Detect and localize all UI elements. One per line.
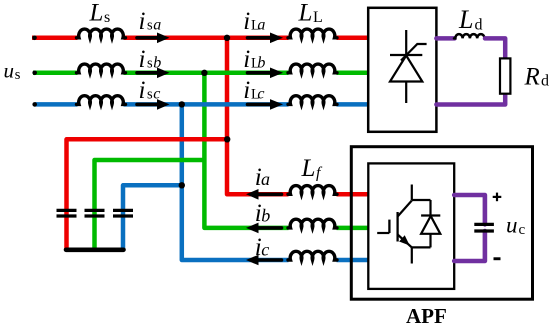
capacitor Cc plates <box>113 210 133 216</box>
arrow iLb <box>248 68 284 79</box>
IGBT emitter stub <box>411 247 413 263</box>
svg-text:L: L <box>298 0 313 27</box>
arrow ic <box>246 255 282 266</box>
node junction phase-b top <box>201 70 207 76</box>
thyristor gate <box>401 44 427 61</box>
inductor Ls phase c <box>77 96 126 105</box>
label isc <box>139 77 161 104</box>
IGBT collector diagonal <box>398 201 412 217</box>
wire phase-a line LL to rectifier <box>337 36 369 41</box>
IGBT bottom horizontal <box>412 246 431 248</box>
thyristor triangle <box>390 56 422 82</box>
wire phase-b drop (green vertical from node B to ib corner) <box>204 73 288 228</box>
svg-text:s: s <box>147 87 153 103</box>
diode top lead <box>429 200 431 216</box>
arrow ia <box>246 189 282 200</box>
inductor LL phase a <box>288 29 337 38</box>
inductor LL phase b <box>288 64 337 73</box>
arrow ib <box>246 223 282 234</box>
label LL <box>298 0 323 27</box>
label iLc <box>243 77 264 104</box>
wire phase-b source segment <box>33 71 78 76</box>
wire dc-link purple bottom <box>454 231 485 261</box>
label ia <box>255 164 270 191</box>
svg-text:L: L <box>301 155 316 182</box>
wire phase-c capacitor branch (blue) <box>123 185 182 250</box>
svg-text:L: L <box>89 0 104 27</box>
IGBT body bar <box>396 212 398 242</box>
svg-text:c: c <box>257 86 264 103</box>
wire phase-a source segment <box>32 36 78 41</box>
capacitor Ca plates <box>57 210 77 216</box>
svg-text:L: L <box>458 5 473 34</box>
IGBT gate bar <box>388 220 390 233</box>
inductor Ls phase b <box>77 64 126 73</box>
arrow iLa <box>248 33 284 44</box>
svg-text:s: s <box>104 9 110 26</box>
label ib <box>255 200 270 227</box>
resistor Rd <box>500 58 510 93</box>
capacitor uc plates <box>474 224 494 231</box>
APF outer box <box>351 147 532 300</box>
arrow isb <box>137 68 170 79</box>
label iLb <box>243 46 265 73</box>
thyristor anode lead <box>405 30 407 55</box>
IGBT collector stub <box>411 185 413 201</box>
svg-text:b: b <box>257 54 265 71</box>
label iLa <box>243 8 265 35</box>
thyristor cathode lead <box>405 82 407 104</box>
wire phase-b line Ls to LL <box>124 71 289 76</box>
diode bottom lead <box>429 234 431 248</box>
wire phase-b capacitor branch (green) <box>95 160 205 250</box>
svg-text:c: c <box>519 222 526 238</box>
svg-text:s: s <box>147 18 153 34</box>
inductor Lf phase b <box>288 219 337 228</box>
IGBT emitter arrowhead <box>399 235 410 245</box>
svg-text:a: a <box>257 17 265 34</box>
wire phase-c line Ls to LL <box>124 102 289 107</box>
inductor Ld <box>454 34 486 38</box>
arrow isc <box>137 99 170 110</box>
node junction blue capacitor branch <box>179 182 185 188</box>
label plus <box>493 193 502 202</box>
svg-text:i: i <box>139 8 146 35</box>
svg-text:i: i <box>139 46 146 73</box>
wire ib segment Lf to inner box (green) <box>337 226 369 231</box>
svg-text:f: f <box>316 165 323 182</box>
IGBT gate lead <box>377 232 389 234</box>
wire phase-b line LL to rectifier <box>337 71 369 76</box>
wire dc top purple (rectifier to Ld) <box>436 36 454 41</box>
wire phase-a drop (red vertical from node A to ia corner) <box>227 38 289 195</box>
inductor Ls phase a <box>77 29 126 38</box>
label isa <box>139 8 162 35</box>
diode triangle <box>421 216 440 234</box>
svg-text:i: i <box>243 8 250 35</box>
label Ls <box>89 0 111 27</box>
svg-text:APF: APF <box>406 304 447 326</box>
wire phase-c line LL to rectifier <box>337 102 369 107</box>
diode bar <box>421 214 440 216</box>
wire phase-a capacitor branch (red) <box>67 139 228 250</box>
wire ia segment Lf to inner box (red) <box>337 192 369 197</box>
IGBT top horizontal <box>412 199 431 201</box>
svg-text:L: L <box>313 9 323 26</box>
wire dc loop purple (Ld to Rd to rectifier) <box>436 38 505 104</box>
svg-text:u: u <box>4 59 15 83</box>
arrow isa <box>137 33 170 44</box>
svg-text:b: b <box>153 54 161 71</box>
inductor LL phase c <box>288 96 337 105</box>
wire phase-c drop (blue vertical from node C to ic corner) <box>182 104 289 260</box>
capacitor common bar <box>66 248 124 253</box>
svg-text:s: s <box>15 67 21 83</box>
label uc <box>506 213 526 239</box>
label Ld <box>458 5 483 34</box>
wire ic segment Lf to inner box (blue) <box>337 258 369 263</box>
svg-text:R: R <box>524 63 540 90</box>
arrow iLc <box>248 99 284 110</box>
svg-text:c: c <box>153 86 160 103</box>
label us <box>4 59 21 84</box>
label Lf <box>301 155 324 182</box>
node junction red capacitor branch <box>224 136 230 142</box>
rectifier box <box>368 8 436 132</box>
svg-text:u: u <box>506 213 518 238</box>
svg-text:d: d <box>541 73 549 90</box>
capacitor Cb plates <box>85 210 105 216</box>
label minus <box>494 257 501 260</box>
APF inner box <box>368 163 454 289</box>
node junction phase-a top <box>224 35 230 41</box>
svg-text:d: d <box>475 16 483 33</box>
svg-text:a: a <box>153 17 161 34</box>
node source b <box>32 71 37 76</box>
svg-text:a: a <box>261 169 270 189</box>
svg-text:s: s <box>147 55 153 71</box>
wire phase-a line Ls to LL <box>124 36 289 41</box>
svg-text:i: i <box>243 46 250 73</box>
label isb <box>139 46 162 73</box>
svg-text:b: b <box>261 205 270 225</box>
wire phase-c source segment <box>35 102 78 107</box>
thyristor bar <box>390 54 422 56</box>
node junction phase-c top <box>179 101 185 107</box>
wire dc-link purple top (inner box to capacitor) <box>454 195 485 224</box>
svg-text:c: c <box>261 239 269 259</box>
node source c <box>32 102 37 107</box>
IGBT emitter diagonal <box>398 235 412 248</box>
inductor Lf phase a <box>288 186 337 195</box>
svg-text:i: i <box>243 77 250 104</box>
label ic <box>255 234 269 261</box>
node source a <box>32 36 37 41</box>
label Rd <box>524 63 550 90</box>
inductor Lf phase c <box>288 251 337 260</box>
svg-text:i: i <box>139 77 146 104</box>
